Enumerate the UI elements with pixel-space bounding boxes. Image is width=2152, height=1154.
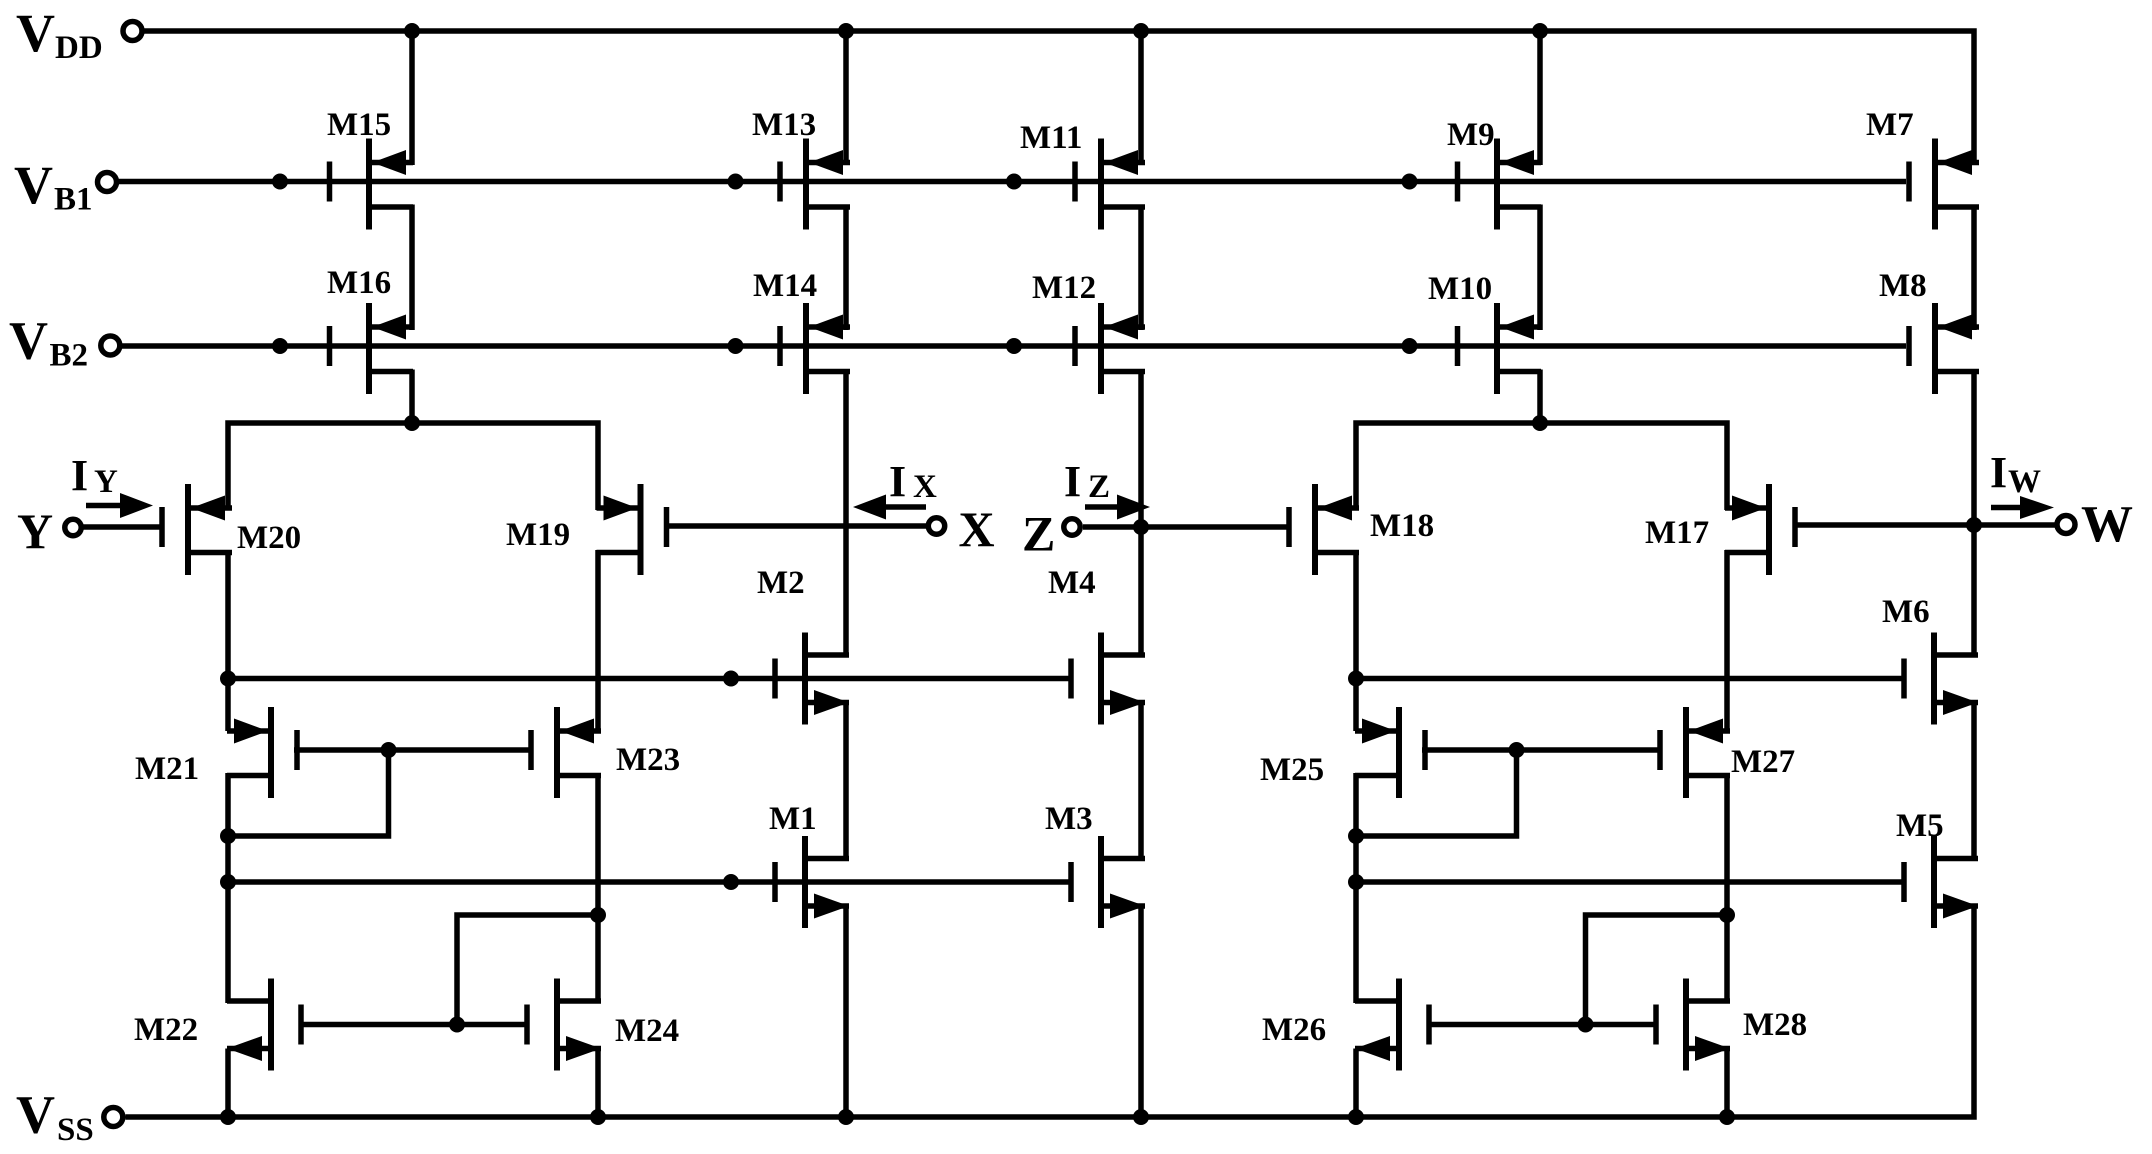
transistor M19 (597, 484, 670, 575)
wire gate rail M2-M4 (228, 676, 1070, 682)
junction on VDD rail at M15 column (404, 23, 420, 39)
junction on VB1 rail left (272, 174, 288, 190)
wire M15-M16 column (409, 31, 415, 423)
svg-text:M21: M21 (135, 751, 199, 787)
svg-text:I: I (889, 457, 906, 506)
svg-text:M13: M13 (752, 107, 816, 143)
wire M25-M27 gate rail (1422, 747, 1658, 753)
wire M27 source to M26-M28 gate link (1586, 915, 1728, 1027)
svg-text:M22: M22 (134, 1012, 198, 1048)
junction M23 source node (590, 907, 606, 923)
junction on VDD rail at M11 column (1133, 23, 1149, 39)
wire VB1 rail (114, 179, 1906, 185)
junction M25 source node (1348, 828, 1364, 844)
svg-text:M7: M7 (1866, 107, 1914, 143)
junction on VB2 rail at M14 (728, 338, 744, 354)
transistor M7 (1906, 139, 1979, 230)
transistor M5 (1901, 836, 1978, 928)
transistor M24 (524, 979, 601, 1071)
svg-text:M2: M2 (757, 565, 805, 601)
terminal Z circle (1064, 519, 1080, 535)
transistor M22 (227, 979, 304, 1071)
wire M17 source down to M27 drain (1724, 550, 1730, 731)
svg-text:W: W (2008, 464, 2041, 500)
svg-text:Z: Z (1088, 469, 1110, 505)
svg-text:I: I (1064, 457, 1081, 506)
svg-text:I: I (1990, 448, 2007, 497)
svg-text:M19: M19 (506, 517, 570, 553)
svg-text:X: X (913, 469, 937, 505)
junction on VSS rail at M22 column (220, 1109, 236, 1125)
wire VDD rail (142, 31, 1974, 165)
transistor M6 (1901, 633, 1978, 725)
svg-text:X: X (959, 501, 995, 557)
wire M28 source to VSS (1724, 1049, 1730, 1118)
wire M9-M10 column (1537, 31, 1543, 423)
wire X lead to M19 gate (664, 523, 926, 529)
junction M22-M24 gate rail (449, 1017, 465, 1033)
transistor M10 (1455, 303, 1541, 394)
junction on VB2 rail at M12 (1006, 338, 1022, 354)
junction on VB1 rail at M11 (1006, 174, 1022, 190)
svg-text:B1: B1 (54, 182, 93, 218)
svg-text:M18: M18 (1370, 508, 1434, 544)
wire M23 source to M22-M24 gate link (457, 915, 598, 1027)
svg-text:M10: M10 (1428, 271, 1492, 307)
transistor M16 (327, 303, 413, 394)
wire M26 source to VSS (1353, 1049, 1359, 1118)
current arrow IZ (1085, 504, 1122, 510)
junction on left mid rail at M16 column (404, 415, 420, 431)
junction M25 gate link (1509, 742, 1525, 758)
svg-text:Y: Y (94, 464, 118, 500)
transistor M25 (1355, 707, 1428, 798)
transistor M28 (1653, 979, 1730, 1071)
svg-text:M28: M28 (1743, 1007, 1807, 1043)
junction on VDD rail at M9 column (1532, 23, 1548, 39)
svg-text:M1: M1 (769, 801, 817, 837)
transistor M8 (1906, 303, 1979, 394)
wire M4 source to M3 drain (1138, 703, 1144, 862)
svg-text:M27: M27 (1731, 744, 1795, 780)
svg-text:M14: M14 (753, 268, 817, 304)
transistor M26 (1355, 979, 1432, 1071)
junction on VSS rail at M28 column (1719, 1109, 1735, 1125)
terminal W circle (2057, 516, 2075, 534)
wire M22 source to VSS (225, 1049, 231, 1118)
current arrow IW (1991, 505, 2020, 511)
wire M18 source down to M25 drain (1353, 550, 1359, 731)
junction gate rail C at M22 column (220, 874, 236, 890)
wire M8-M6 column (1971, 205, 1977, 658)
junction on VB1 rail at M13 (728, 174, 744, 190)
current arrow IX (884, 504, 926, 510)
junction on VSS rail at M26 column (1348, 1109, 1364, 1125)
terminal VDD circle (123, 22, 142, 41)
svg-text:M24: M24 (615, 1013, 679, 1049)
transistor M18 (1286, 484, 1359, 575)
svg-text:M23: M23 (616, 742, 680, 778)
junction gate rail C mid-left (723, 874, 739, 890)
junction on VSS rail at M1 column (838, 1109, 854, 1125)
junction on VB2 rail left (272, 338, 288, 354)
svg-text:M5: M5 (1896, 808, 1944, 844)
transistor M20 (159, 484, 232, 575)
wire M24 source to VSS (595, 1049, 601, 1118)
junction on W lead at M8 column (1966, 517, 1982, 533)
transistor M2 (772, 633, 849, 725)
svg-text:M15: M15 (327, 107, 391, 143)
wire right mid top rail M18-M17 (1356, 423, 1727, 510)
junction on right mid rail at M10 column (1532, 415, 1548, 431)
junction M26-M28 gate rail (1578, 1017, 1594, 1033)
svg-text:M16: M16 (327, 265, 391, 301)
transistor M14 (777, 303, 850, 394)
transistor M23 (528, 707, 601, 798)
junction on VB2 rail at M10 (1402, 338, 1418, 354)
junction gate rail A at M20 column (220, 671, 236, 687)
transistor M21 (227, 707, 300, 798)
svg-text:V: V (16, 3, 55, 63)
wire M11-M12-M4 column (1138, 31, 1144, 658)
svg-text:DD: DD (55, 30, 103, 66)
wire gate rail M6 (1356, 676, 1903, 682)
transistor M27 (1657, 707, 1730, 798)
wire M25 source to own gate link (1356, 747, 1517, 836)
junction on VDD rail at M13 column (838, 23, 854, 39)
wire M23 source down to M24 drain (595, 773, 601, 1003)
svg-text:M17: M17 (1645, 515, 1709, 551)
svg-text:Z: Z (1022, 506, 1055, 562)
wire left mid top rail M20-M19 (228, 423, 598, 510)
junction on VSS rail at M24 column (590, 1109, 606, 1125)
wire M3 source to VSS (1138, 906, 1144, 1117)
wire M1 source to VSS (843, 906, 849, 1117)
svg-text:V: V (16, 1085, 55, 1145)
junction on VSS rail at M3 column (1133, 1109, 1149, 1125)
wire VSS rail (126, 904, 1975, 1117)
wire M6 source to M5 drain (1971, 703, 1977, 862)
terminal VSS circle (104, 1108, 123, 1127)
svg-text:M6: M6 (1882, 594, 1930, 630)
wire Y terminal lead (81, 524, 162, 530)
transistor M11 (1072, 139, 1145, 230)
wire Z lead to M18 gate (1083, 524, 1287, 530)
svg-text:M11: M11 (1020, 120, 1082, 156)
transistor M12 (1072, 303, 1145, 394)
junction gate rail A mid-left (723, 671, 739, 687)
svg-text:M25: M25 (1260, 752, 1324, 788)
transistor M1 (772, 836, 849, 928)
svg-text:Y: Y (17, 503, 53, 559)
terminal VB2 circle (101, 336, 120, 355)
transistor M4 (1068, 633, 1145, 725)
svg-text:M12: M12 (1032, 270, 1096, 306)
wire W lead from M17 gate (1796, 522, 2057, 528)
current arrow IY (86, 503, 121, 509)
junction on Z lead at M12 column (1133, 519, 1149, 535)
junction on VB1 rail at M9 (1402, 174, 1418, 190)
terminal X circle (928, 518, 944, 534)
svg-text:M4: M4 (1048, 565, 1096, 601)
terminal VB1 circle (98, 173, 117, 192)
svg-text:M20: M20 (237, 520, 301, 556)
junction M27 source node (1719, 907, 1735, 923)
junction gate rail A at M18 column (1348, 671, 1364, 687)
wire M2 source to M1 drain (843, 703, 849, 862)
junction M21 source node (220, 828, 236, 844)
wire M27 source down to M28 drain (1724, 773, 1730, 1003)
transistor M9 (1455, 139, 1541, 230)
wire M19 source down to M23 drain (595, 550, 601, 731)
transistor M17 (1725, 484, 1798, 575)
svg-text:SS: SS (57, 1112, 94, 1148)
svg-text:V: V (14, 155, 53, 215)
wire M20 source down to M21 drain (225, 550, 231, 731)
svg-text:I: I (71, 451, 88, 500)
wire M13-M14-M2 column (843, 31, 849, 658)
junction gate rail C at M26 column (1348, 874, 1364, 890)
terminal Y circle (65, 519, 81, 535)
transistor M15 (327, 139, 413, 230)
svg-text:M26: M26 (1262, 1012, 1326, 1048)
wire M21 source node down to M22 drain (225, 836, 231, 1003)
svg-text:W: W (2081, 496, 2133, 553)
wire M25 source node down to M26 drain (1353, 836, 1359, 1003)
svg-text:M9: M9 (1447, 117, 1495, 153)
transistor M3 (1068, 836, 1145, 928)
wire gate rail M5 (1356, 879, 1903, 885)
wire VB2 rail (119, 343, 1907, 349)
junction M21 gate link (381, 742, 397, 758)
wire M21 source to own gate link (228, 747, 389, 836)
svg-text:V: V (9, 311, 48, 371)
transistor M13 (777, 139, 850, 230)
wire M26-M28 gate rail (1427, 1022, 1656, 1028)
svg-text:B2: B2 (50, 338, 89, 374)
svg-text:M8: M8 (1879, 268, 1927, 304)
wire gate rail M1-M3 (228, 879, 1070, 885)
svg-text:M3: M3 (1045, 801, 1093, 837)
wire M21-M23 gate rail (294, 747, 530, 753)
wire M22-M24 gate rail (299, 1022, 528, 1028)
